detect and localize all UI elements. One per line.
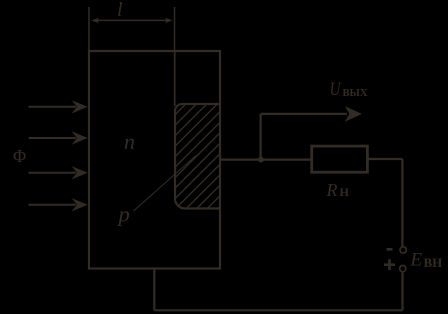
svg-text:R: R — [326, 180, 338, 200]
right vertical wire — [401, 159, 403, 247]
resistor Rн — [312, 146, 368, 172]
svg-text:l: l — [117, 0, 123, 21]
wire below plus terminal — [401, 272, 403, 310]
bottom wire — [154, 309, 402, 311]
Uout arrow — [261, 106, 362, 122]
terminal circle minus — [400, 247, 406, 253]
dimension arrowhead left — [91, 18, 99, 23]
dimension extension line right — [174, 7, 176, 51]
wire from p electrode to node — [220, 159, 311, 161]
svg-text:p: p — [117, 201, 130, 226]
terminal circle plus — [400, 266, 406, 272]
dimension line l — [95, 19, 169, 21]
left bottom vertical wire — [153, 269, 155, 311]
dimension arrowhead right — [165, 18, 173, 23]
svg-text:Φ: Φ — [13, 146, 26, 166]
dimension extension line left — [88, 7, 90, 51]
wire resistor to right vertical — [367, 158, 402, 160]
svg-text:n: n — [124, 129, 135, 154]
p-n junction boundary line — [174, 51, 176, 106]
semiconductor crystal body — [89, 51, 220, 269]
minus sign — [387, 248, 393, 251]
svg-text:U: U — [330, 78, 342, 99]
node junction dot — [258, 157, 264, 163]
flux arrow 3 — [29, 166, 88, 179]
svg-text:ВН: ВН — [424, 255, 443, 270]
plus sign — [384, 259, 395, 270]
svg-text:ВЫХ: ВЫХ — [343, 88, 368, 99]
wire Uout branch vertical — [260, 114, 262, 160]
flux arrow 2 — [29, 131, 88, 144]
pointer line from p to electrode — [134, 156, 197, 212]
svg-text:E: E — [410, 250, 423, 271]
flux arrow 1 — [29, 100, 88, 113]
flux arrow 4 — [29, 198, 88, 211]
p-region hatched electrode — [175, 104, 220, 209]
svg-text:Н: Н — [340, 185, 350, 199]
